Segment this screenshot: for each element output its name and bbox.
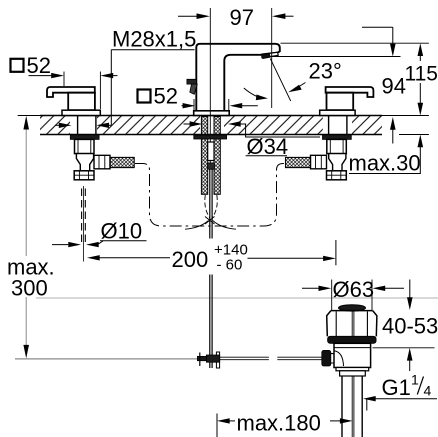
right valve side port hex (311, 155, 327, 169)
dim 52 faucet right arrow (230, 103, 243, 108)
hose end curve right (212, 195, 217, 218)
23 degree leader arrow (288, 85, 302, 92)
dim 94 upper line and down arrow (392, 27, 394, 45)
dim 52 faucet left arrow (182, 105, 185, 107)
dim 94 lower up arrow and tail (390, 117, 396, 130)
dim 97 left arrow (178, 15, 197, 17)
dim O63 left arrow (302, 287, 319, 289)
svg-text:1: 1 (411, 372, 419, 388)
dim O63 right arrow (373, 286, 386, 291)
right valve shank in deck (329, 116, 347, 135)
label max.300 (5, 255, 55, 301)
dim O63 extension line left (331, 280, 333, 311)
left valve lower funnel (76, 154, 93, 171)
faucet U1 body (196, 44, 279, 111)
dim 52 handle extension line right (99, 72, 101, 110)
dim O10 right-pointing arrow (52, 244, 70, 246)
dim 52 faucet extension line right (228, 99, 230, 111)
drain union ring 1 (336, 368, 369, 371)
M28 arrow right-pointing at shank (55, 124, 60, 126)
drain seal ring (328, 336, 377, 343)
right valve mounting flange nut (323, 135, 352, 140)
svg-text:4: 4 (424, 383, 432, 399)
floor reference line grey (15, 358, 197, 360)
hose flare curve right (213, 221, 236, 230)
dim 200 line right segment and arrow (248, 257, 324, 259)
dim max.180 extension line left (216, 414, 218, 437)
rod cross mark at basin (205, 217, 215, 225)
svg-text:52: 52 (27, 53, 51, 78)
faucet aerator nozzle (262, 54, 271, 59)
rod clamp left pins (197, 356, 206, 360)
dim 94 upper tail (362, 26, 393, 28)
left valve side port hex (94, 155, 110, 169)
square symbol 52 first (11, 59, 24, 72)
hose flare curve left (185, 221, 209, 230)
dim 97 extension line right (271, 8, 273, 108)
left handle H1 base plate (62, 110, 100, 115)
23 degree arc arrow (244, 88, 265, 98)
G1 leader arrow (363, 396, 376, 401)
drain ball joint inner arc (334, 351, 344, 366)
dim max.180 right arrow (330, 420, 341, 422)
M28 leader vertical (110, 50, 112, 126)
drain tail pipe (342, 376, 362, 437)
spout outlet level extension line (270, 56, 401, 58)
max.300 top arrowhead (23, 116, 29, 130)
left braided hose (110, 157, 134, 167)
faucet lever pin (187, 79, 197, 84)
left handle H1 lever (47, 87, 95, 97)
deck top edge (40, 115, 382, 117)
pull rod centerline (82, 186, 84, 262)
svg-text:max.180: max.180 (237, 411, 321, 436)
left valve body (75, 139, 95, 153)
drain body cylinder (334, 343, 371, 367)
svg-text:115: 115 (405, 63, 438, 86)
right handle H2 post (327, 93, 354, 111)
svg-text:Ø34: Ø34 (247, 134, 289, 159)
label 200 +140 -60 (171, 239, 248, 275)
dim 200 extension line at drain (335, 240, 337, 265)
faucet threaded rod (208, 142, 214, 161)
svg-text:200: 200 (172, 247, 209, 272)
right valve body (327, 139, 347, 153)
svg-text:300: 300 (11, 276, 48, 301)
drain plug stem (352, 311, 354, 437)
pop-up rod vertical (210, 169, 212, 368)
dim 52 handle extension line left (63, 72, 65, 87)
dim O34 arrow right-pointing with leader (228, 121, 241, 126)
dimension max.300 vertical line (25, 128, 27, 346)
spout top level extension line (281, 42, 429, 44)
hose end curve left (205, 195, 210, 218)
faucet base flange (194, 111, 230, 116)
dim 52 faucet extension line left (193, 99, 195, 111)
faucet flexible hose left strip (201, 117, 207, 195)
left valve mounting flange nut (70, 135, 99, 140)
svg-text:52: 52 (154, 84, 178, 109)
faucet centerline / extension line (209, 8, 211, 168)
dim 40-53 down arrow (409, 280, 411, 299)
faucet flexible hose right strip (214, 117, 220, 195)
dim O63 extension line right (371, 280, 373, 311)
linkage rod end flange (216, 352, 219, 368)
dim max.30 up arrow (418, 135, 424, 148)
rod clamp screw joint (206, 355, 219, 362)
countertop deck hatched section (40, 116, 382, 134)
left valve shank in deck (78, 116, 96, 135)
drain flange top surface (331, 310, 373, 312)
dim 200 line left arrow (87, 255, 100, 260)
faucet stabilizing plate below deck (194, 135, 227, 139)
M28 arrow left-pointing at shank (96, 123, 109, 128)
pull rod Ø10 dashed (82, 189, 86, 244)
svg-text:40-53: 40-53 (382, 314, 438, 339)
drain flange body (327, 311, 377, 337)
dim max.180 left arrow (217, 418, 230, 423)
O34 label underline (246, 155, 287, 157)
right braided hose (286, 157, 311, 167)
deck top extension line right (382, 115, 429, 117)
M28 leader underline (111, 49, 194, 51)
deck bottom extension line right (399, 134, 429, 136)
dim O34 arrow left-pointing (184, 123, 191, 125)
drain union ring 2 (340, 371, 366, 376)
dim 40-53 reference line (373, 347, 435, 349)
water stream 23 degree line (270, 59, 290, 102)
right handle H2 base plate (320, 110, 355, 115)
left handle H1 post (68, 93, 95, 111)
svg-text:Ø63: Ø63 (333, 277, 375, 302)
square symbol 52 second (138, 90, 151, 103)
pop-up horizontal linkage rod segment B (277, 357, 322, 360)
dim 52 handle right arrow (100, 73, 113, 78)
dim 52 handle left arrow (29, 75, 53, 77)
max.300 bottom arrowhead (23, 345, 29, 359)
label 115 (403, 61, 438, 86)
right valve bottom hex nut (327, 171, 347, 180)
basin outline dash-dot curve (135, 164, 286, 227)
right handle H2 lever (326, 87, 374, 97)
pop-up horizontal linkage rod segment A (220, 357, 269, 360)
svg-text:- 60: - 60 (217, 257, 243, 274)
drain ball joint nut (322, 350, 331, 366)
svg-text:M28x1,5: M28x1,5 (112, 27, 196, 52)
faucet rod nut (208, 163, 215, 169)
drain flange inner neck lines (336, 312, 367, 337)
dim 97 right arrow (272, 13, 285, 19)
dim O10 left-pointing arrow (86, 242, 99, 247)
right valve lower funnel (329, 154, 346, 171)
dim 40-53 up arrow (407, 348, 413, 361)
faucet spout aerator outlet (262, 52, 278, 57)
dim 115 line with arrows (419, 55, 421, 104)
svg-text:94: 94 (382, 74, 406, 99)
svg-text:Ø10: Ø10 (101, 219, 143, 244)
deck bottom edge (40, 134, 382, 136)
svg-text:max.30: max.30 (349, 151, 421, 176)
deck top extension line left (18, 115, 40, 117)
svg-text:G1: G1 (382, 375, 411, 400)
drain ball joint neck (331, 354, 334, 363)
drain body joint line (334, 347, 371, 349)
svg-text:97: 97 (230, 5, 254, 30)
faucet lever pin diagonal (190, 84, 198, 94)
drain pop-up waste dome cap (339, 305, 366, 311)
svg-text:23°: 23° (309, 59, 342, 84)
left valve bottom hex nut (74, 171, 94, 180)
reference plane line (300 below) grey (36, 297, 438, 299)
